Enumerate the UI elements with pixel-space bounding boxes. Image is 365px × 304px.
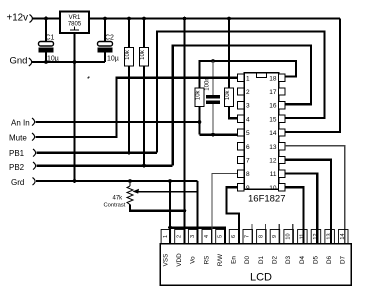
svg-text:17: 17 bbox=[269, 89, 277, 96]
svg-text:D3: D3 bbox=[285, 255, 292, 264]
node C2 junction on rail bbox=[103, 17, 107, 21]
node C1/+12v junction bbox=[44, 17, 48, 21]
wire An In bbox=[36, 121, 200, 123]
wire Grd rail bbox=[36, 180, 198, 182]
svg-text:7: 7 bbox=[245, 235, 251, 238]
LCD module bbox=[160, 244, 351, 286]
svg-text:4: 4 bbox=[246, 116, 250, 123]
svg-text:10: 10 bbox=[269, 185, 277, 192]
wire PIC pin9 to LCD pin6 En bbox=[227, 187, 240, 243]
PIC left pin stubs 1-9 bbox=[238, 74, 245, 191]
svg-text:PB2: PB2 bbox=[9, 163, 25, 172]
svg-text:13: 13 bbox=[269, 144, 277, 151]
svg-text:D1: D1 bbox=[258, 255, 265, 264]
svg-text:Vo: Vo bbox=[190, 256, 197, 264]
svg-text:3: 3 bbox=[190, 235, 196, 238]
svg-text:1: 1 bbox=[246, 75, 250, 82]
wire VR1 ground pin down bbox=[73, 33, 75, 182]
svg-text:An In: An In bbox=[11, 119, 30, 128]
wire Mute to PIC pin1 bbox=[36, 78, 238, 137]
svg-text:9: 9 bbox=[272, 235, 278, 238]
svg-text:4: 4 bbox=[204, 235, 210, 238]
LCD pin numbers rotated bbox=[163, 233, 346, 239]
wire PB1 bbox=[37, 152, 158, 154]
svg-text:12: 12 bbox=[269, 158, 277, 165]
svg-text:3: 3 bbox=[246, 103, 250, 110]
svg-text:2: 2 bbox=[246, 89, 250, 96]
capacitor C4 100n bbox=[205, 61, 221, 135]
svg-text:RS: RS bbox=[203, 256, 210, 265]
svg-text:12: 12 bbox=[313, 233, 319, 239]
svg-text:10k: 10k bbox=[125, 49, 131, 60]
svg-text:10: 10 bbox=[286, 233, 292, 239]
svg-text:C2: C2 bbox=[105, 35, 114, 42]
svg-text:18: 18 bbox=[269, 75, 277, 82]
svg-text:11: 11 bbox=[299, 234, 305, 240]
svg-text:PB1: PB1 bbox=[9, 149, 25, 158]
PIC pin numbers left bbox=[246, 75, 250, 192]
svg-text:C1: C1 bbox=[46, 35, 55, 42]
wire +5V down to LCD pin2 bbox=[183, 19, 185, 244]
svg-text:1: 1 bbox=[163, 235, 169, 238]
svg-text:13: 13 bbox=[327, 233, 333, 239]
svg-text:47k: 47k bbox=[113, 196, 124, 202]
svg-text:VDD: VDD bbox=[176, 253, 183, 267]
svg-text:D7: D7 bbox=[340, 255, 347, 264]
svg-text:Grd: Grd bbox=[11, 178, 24, 187]
svg-text:Gnd: Gnd bbox=[10, 55, 28, 66]
svg-text:10k: 10k bbox=[196, 89, 202, 100]
PIC 16F1827 bbox=[244, 73, 286, 205]
wire contrast wiper down to LCD pin3 bbox=[196, 181, 198, 244]
LCD pin labels rotated bbox=[162, 253, 346, 267]
wire Gnd rail bbox=[32, 61, 106, 63]
LCD D0-D3 stubs bbox=[251, 224, 253, 244]
svg-text:R/W: R/W bbox=[217, 254, 224, 266]
svg-text:6: 6 bbox=[246, 144, 250, 151]
regulator VR1 7805 bbox=[60, 12, 89, 34]
wire PIC pin10 to LCD pin11 D4 bbox=[285, 187, 304, 243]
resistor R1 10k (PB1 pull-up) bbox=[125, 19, 134, 154]
svg-text:11: 11 bbox=[270, 171, 277, 178]
svg-text:2: 2 bbox=[177, 235, 183, 238]
wire AN node to PIC pin5 bbox=[200, 133, 238, 135]
wire PIC pin13 to LCD pin14 D7 bbox=[285, 146, 345, 244]
svg-text:7: 7 bbox=[246, 158, 250, 165]
node gnd junctions bbox=[44, 60, 48, 64]
wire PIC pin8 to LCD pin4 RS bbox=[212, 173, 238, 243]
stray mark bbox=[88, 77, 90, 79]
svg-text:16F1827: 16F1827 bbox=[248, 194, 286, 205]
wire PB2 bbox=[37, 164, 173, 166]
svg-text:14: 14 bbox=[340, 233, 346, 239]
svg-text:VSS: VSS bbox=[162, 254, 169, 267]
capacitor C2 bbox=[98, 19, 119, 63]
wire +5V down to PIC pin14 bbox=[285, 19, 340, 132]
svg-text:8: 8 bbox=[258, 235, 264, 238]
svg-text:5: 5 bbox=[217, 235, 223, 238]
wire +5V rail from VR1 to right bbox=[89, 17, 340, 19]
svg-text:+12v: +12v bbox=[7, 13, 29, 24]
resistor R3 10k (An In series) bbox=[195, 88, 204, 135]
svg-text:D4: D4 bbox=[299, 255, 306, 264]
capacitor C1 bbox=[39, 19, 59, 63]
svg-text:D5: D5 bbox=[313, 255, 320, 264]
svg-text:8: 8 bbox=[246, 171, 250, 178]
wire +12v to VR1 bbox=[32, 17, 60, 19]
wire Grd down to LCD pin1 bbox=[169, 181, 171, 244]
wire PIC pin12 to LCD pin13 D6 bbox=[285, 160, 331, 244]
resistor R4 10k (MCLR pull-up) bbox=[225, 19, 238, 119]
svg-text:15: 15 bbox=[269, 116, 277, 123]
svg-text:VR1: VR1 bbox=[69, 15, 81, 21]
svg-text:D0: D0 bbox=[244, 255, 251, 264]
svg-text:LCD: LCD bbox=[250, 272, 272, 284]
PIC pin numbers right bbox=[269, 75, 277, 192]
node 100n top junction bbox=[211, 59, 215, 63]
svg-text:6: 6 bbox=[231, 235, 237, 238]
svg-text:14: 14 bbox=[269, 130, 277, 137]
svg-text:10k: 10k bbox=[225, 89, 231, 100]
wire rail to PIC pin15 bbox=[157, 32, 325, 153]
svg-text:En: En bbox=[231, 256, 238, 264]
svg-text:16: 16 bbox=[269, 103, 277, 110]
wire PIC pin11 to LCD pin12 D5 bbox=[285, 173, 317, 243]
resistor R2 10k (PB2 pull-up) bbox=[140, 19, 149, 167]
svg-text:Mute: Mute bbox=[9, 134, 27, 143]
svg-text:10k: 10k bbox=[140, 49, 146, 60]
svg-text:100n: 100n bbox=[205, 77, 211, 90]
wire rail to PIC pin18 (AN node) bbox=[200, 61, 297, 88]
svg-text:Contrast: Contrast bbox=[104, 203, 126, 209]
svg-text:D2: D2 bbox=[272, 255, 279, 264]
potentiometer 47k Contrast bbox=[104, 181, 198, 211]
svg-text:5: 5 bbox=[246, 130, 250, 137]
wire rail to PIC pin16 bbox=[173, 46, 311, 166]
svg-text:D6: D6 bbox=[326, 255, 333, 264]
LCD pin boxes 1-14 bbox=[161, 230, 348, 244]
PIC right pin stubs 18-10 bbox=[279, 74, 286, 191]
svg-text:10µ: 10µ bbox=[107, 56, 119, 63]
wire ground to LCD pin5 R/W bbox=[170, 228, 225, 244]
svg-text:9: 9 bbox=[246, 185, 250, 192]
